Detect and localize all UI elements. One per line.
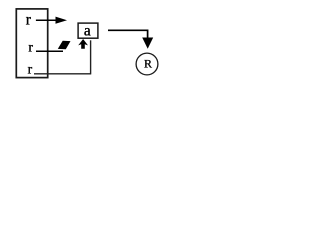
box a	[78, 23, 98, 38]
up arrowhead into box a	[78, 39, 88, 49]
wire from box a to R	[108, 30, 148, 38]
result circle R	[136, 53, 158, 75]
wire from r2	[36, 50, 63, 52]
svg-text:r: r	[28, 61, 33, 76]
wire from r1	[36, 19, 58, 21]
vertical wire up to box a	[90, 40, 92, 74]
wire from r3	[34, 73, 91, 75]
arrowhead of r1 wire	[56, 17, 68, 24]
svg-text:R: R	[144, 57, 152, 71]
svg-text:a: a	[84, 22, 91, 39]
relation rectangle	[16, 9, 47, 78]
svg-text:r: r	[28, 40, 33, 55]
arrowhead pointing down-left at r2 wire	[58, 41, 71, 49]
svg-text:r: r	[26, 11, 32, 28]
down arrowhead into R	[142, 38, 153, 49]
